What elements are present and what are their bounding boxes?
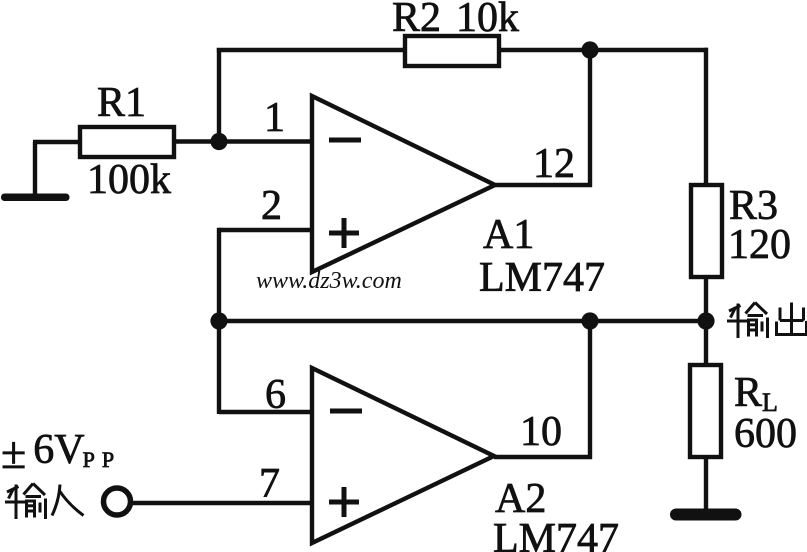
wire pin 2 <box>219 228 312 232</box>
wire top left to R2 <box>217 48 405 52</box>
svg-text:1: 1 <box>264 95 285 141</box>
svg-text:A1: A1 <box>483 212 534 258</box>
junction node A2 output <box>581 312 598 329</box>
svg-text:120: 120 <box>728 222 791 268</box>
wire A2 output up to bus <box>494 321 592 459</box>
svg-text:10: 10 <box>520 409 562 455</box>
svg-text:LM747: LM747 <box>479 255 605 301</box>
wire RL to ground <box>704 457 708 514</box>
wire output bus (mid horizontal) <box>219 319 706 323</box>
op-amp A1 <box>312 96 495 272</box>
char 出 of 输出 <box>777 303 807 335</box>
char 输 of 输出 <box>727 303 768 339</box>
wire R2 to top-right corner <box>499 48 708 52</box>
wire junction up to R2 left <box>217 48 221 142</box>
svg-text:2: 2 <box>261 183 282 229</box>
ground <box>1 142 70 201</box>
svg-text:600: 600 <box>734 411 797 457</box>
wire top corner down to R3 <box>704 48 708 185</box>
svg-text:LM747: LM747 <box>493 516 619 552</box>
label 输出 (output) <box>727 303 807 339</box>
wire pin 7 from input terminal <box>132 501 312 505</box>
ground (bottom right) <box>670 509 742 521</box>
junction node A1 output / top <box>581 41 598 58</box>
resistor RL <box>690 365 721 457</box>
junction node feedback mid <box>210 312 227 329</box>
resistor R2 <box>405 36 499 66</box>
wire A1 output to top node <box>495 50 592 187</box>
wire R3 to output node <box>704 277 708 321</box>
wire pin2 corner down to pin 6 <box>217 228 221 414</box>
svg-text:±6VPP: ±6VPP <box>1 427 114 478</box>
svg-text:100k: 100k <box>87 157 171 203</box>
svg-text:7: 7 <box>259 461 280 507</box>
resistor R1 <box>80 127 174 157</box>
char 输 of 输入 <box>5 484 46 520</box>
wire R1 to pin 1 <box>174 139 312 143</box>
svg-text:RL: RL <box>734 370 778 417</box>
label 输入 (input) <box>5 484 84 520</box>
svg-text:R2 10k: R2 10k <box>392 0 519 41</box>
junction node pin1/R2 <box>210 133 227 150</box>
wire output node to RL <box>704 321 708 365</box>
junction node output <box>697 312 714 329</box>
char 入 of 输入 <box>52 485 84 516</box>
resistor R3 <box>691 185 722 277</box>
svg-text:R1: R1 <box>97 80 146 126</box>
op-amp A2 <box>312 368 494 543</box>
input terminal circle <box>104 488 131 515</box>
svg-text:12: 12 <box>533 141 575 187</box>
wire pin 6 <box>219 410 312 414</box>
svg-text:www.dz3w.com: www.dz3w.com <box>256 268 402 294</box>
wire ground to R1 <box>33 140 82 144</box>
